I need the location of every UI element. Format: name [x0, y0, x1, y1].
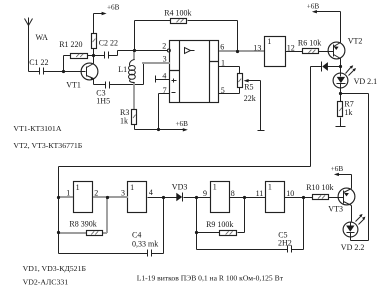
svg-text:8: 8	[231, 189, 235, 198]
svg-text:22k: 22k	[244, 94, 256, 103]
svg-text:1: 1	[221, 59, 225, 68]
svg-text:0,33 mk: 0,33 mk	[132, 239, 158, 248]
svg-text:4: 4	[162, 71, 166, 80]
svg-text:1: 1	[267, 37, 271, 46]
svg-text:2: 2	[94, 188, 98, 197]
svg-text:VT2, VT3-КТ36771Б: VT2, VT3-КТ36771Б	[13, 141, 82, 150]
svg-text:4: 4	[149, 188, 153, 197]
svg-text:VT2: VT2	[348, 36, 363, 45]
svg-text:1k: 1k	[120, 116, 128, 125]
svg-text:VT1-КТ3101А: VT1-КТ3101А	[13, 124, 61, 133]
svg-text:R9 100k: R9 100k	[206, 220, 233, 229]
svg-text:VD1, VD3-КД521Б: VD1, VD3-КД521Б	[23, 264, 87, 273]
svg-text:C4: C4	[132, 230, 141, 239]
svg-text:6: 6	[220, 42, 224, 51]
svg-text:1: 1	[66, 188, 70, 197]
svg-text:VD 2.2: VD 2.2	[341, 243, 365, 252]
svg-text:2: 2	[162, 42, 166, 51]
svg-text:3: 3	[121, 189, 125, 198]
svg-text:1H5: 1H5	[96, 96, 110, 105]
svg-text:11: 11	[256, 189, 264, 198]
svg-text:+6B: +6B	[176, 120, 189, 128]
svg-text:VD2-АЛС331: VD2-АЛС331	[23, 278, 69, 287]
svg-text:VT3: VT3	[328, 204, 343, 213]
svg-text:L1-19 витков ПЭВ 0,1 на R 100: L1-19 витков ПЭВ 0,1 на R 100 кОм-0,125 …	[137, 273, 284, 282]
svg-text:2H2: 2H2	[278, 238, 292, 247]
svg-text:1: 1	[130, 183, 134, 192]
svg-text:R10 10k: R10 10k	[306, 183, 333, 192]
svg-text:R6 10k: R6 10k	[298, 39, 321, 48]
svg-text:1k: 1k	[344, 108, 352, 117]
svg-text:1: 1	[76, 183, 80, 192]
svg-text:VD 2.1: VD 2.1	[354, 77, 378, 86]
svg-text:5: 5	[221, 86, 225, 95]
svg-text:R5: R5	[244, 83, 253, 92]
svg-text:9: 9	[203, 189, 207, 198]
svg-text:R1 220: R1 220	[59, 40, 82, 49]
svg-text:7: 7	[163, 86, 167, 95]
svg-text:+6B: +6B	[307, 2, 320, 10]
svg-text:+6B: +6B	[331, 165, 344, 173]
svg-text:VT1: VT1	[66, 80, 81, 89]
svg-text:R4 100k: R4 100k	[164, 9, 191, 18]
svg-text:C1 22: C1 22	[29, 58, 48, 67]
svg-text:10: 10	[286, 189, 294, 198]
svg-text:3: 3	[163, 54, 167, 63]
svg-text:1: 1	[268, 183, 272, 192]
svg-text:C2 22: C2 22	[99, 39, 118, 48]
svg-text:L1: L1	[118, 65, 127, 74]
svg-text:VD3: VD3	[172, 182, 188, 191]
svg-text:1: 1	[213, 183, 217, 192]
svg-text:+6B: +6B	[107, 4, 120, 12]
svg-text:WA: WA	[36, 33, 49, 42]
svg-text:13: 13	[253, 43, 261, 52]
svg-text:R8 390k: R8 390k	[69, 220, 96, 229]
